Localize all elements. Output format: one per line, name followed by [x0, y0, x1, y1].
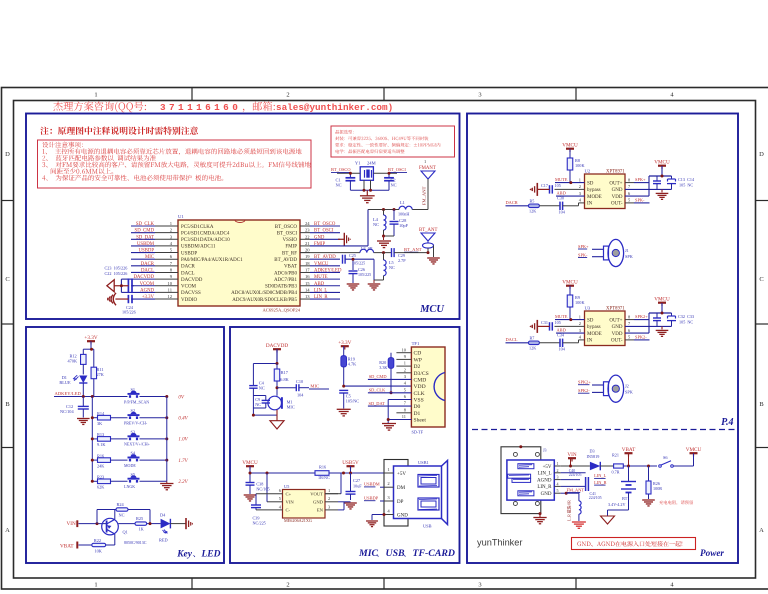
svg-text:20: 20 — [305, 248, 310, 253]
svg-text:11: 11 — [168, 287, 173, 292]
svg-text:GND: GND — [612, 325, 623, 330]
svg-text:4: 4 — [579, 335, 582, 340]
svg-text:2: 2 — [286, 92, 289, 99]
svg-text:SPK+: SPK+ — [635, 177, 646, 182]
svg-text:PA0/MIC/PA4/AUX1R/ADC1: PA0/MIC/PA4/AUX1R/ADC1 — [181, 258, 243, 263]
svg-text:CD: CD — [414, 351, 422, 357]
svg-text:FM_ANT: FM_ANT — [567, 487, 585, 492]
resistor R11 27K — [93, 349, 95, 367]
capacitor C9 NC — [262, 399, 270, 401]
svg-text:LIN_R: LIN_R — [314, 295, 328, 300]
svg-text:NC: NC — [389, 265, 395, 270]
ground below C26 — [347, 283, 360, 285]
J3 contact glyph GND — [518, 491, 534, 496]
svg-text:yunThinker: yunThinker — [477, 538, 522, 548]
svg-text:C34: C34 — [557, 332, 565, 337]
adkey node wire — [54, 396, 126, 398]
svg-text:D1: D1 — [414, 411, 421, 417]
wire crystal ground rail — [350, 189, 389, 191]
svg-text:C22 105/226: C22 105/226 — [105, 271, 128, 276]
Q1 emitter wire to R22 — [114, 534, 116, 545]
svg-text:ADKEY/LED: ADKEY/LED — [314, 268, 342, 273]
svg-text:9.1K: 9.1K — [97, 442, 106, 447]
svg-text:+3.3V: +3.3V — [142, 295, 155, 300]
wire mic top node — [253, 363, 277, 365]
svg-text:224/105: 224/105 — [589, 496, 602, 500]
svg-text:ADKEY/LED: ADKEY/LED — [55, 391, 82, 396]
svg-text:4: 4 — [670, 582, 674, 589]
svg-text:R7: R7 — [530, 335, 535, 340]
U1 pin 10 VCOM — [155, 285, 178, 287]
switch S2 PREV/V-/CH- — [129, 416, 131, 419]
U5 pin 6 C+ / pin 1 VOUT — [325, 493, 338, 495]
ground below C27 U5 — [344, 502, 357, 504]
net label MUTE U3 — [555, 319, 585, 321]
wire pin 15 — [310, 285, 340, 287]
svg-text:D3: D3 — [590, 449, 595, 454]
svg-text:A: A — [759, 527, 764, 534]
wire left pin 1 — [131, 225, 155, 227]
svg-text:GND: GND — [397, 513, 408, 518]
U1 pin 18 VBAT — [300, 265, 310, 267]
svg-text:BT_OSCI: BT_OSCI — [277, 231, 298, 236]
svg-text:C-: C- — [286, 508, 291, 513]
U1 pin 20 BT_RF — [300, 252, 310, 254]
svg-text:USBDP: USBDP — [181, 251, 197, 256]
U1 pin 9 DACVDD — [155, 278, 178, 280]
TF1 pin 8 D1 — [396, 412, 411, 414]
svg-text:8: 8 — [628, 314, 631, 319]
svg-text:SD0DATB/PB3: SD0DATB/PB3 — [265, 285, 297, 290]
svg-text:C1: C1 — [336, 177, 341, 182]
svg-text:2: 2 — [579, 321, 581, 326]
svg-text:NC/104: NC/104 — [60, 409, 74, 414]
svg-text:D2: D2 — [414, 364, 421, 370]
svg-text:VIN: VIN — [286, 500, 295, 505]
J3 contact glyph AGND double — [508, 474, 531, 478]
svg-text:470K: 470K — [68, 359, 78, 364]
svg-text:24: 24 — [305, 221, 310, 226]
U3 pin 8 OUT+ — [625, 319, 634, 321]
ground below switch rail — [160, 483, 173, 485]
svg-text:B: B — [759, 401, 764, 408]
resistor R24 NC feedback — [96, 510, 98, 524]
svg-text:3: 3 — [404, 374, 407, 379]
svg-text:2: 2 — [557, 468, 559, 473]
wire +5V row to VIN node — [561, 465, 590, 467]
svg-text:DACVDD: DACVDD — [133, 275, 154, 280]
resistor R7 12K input series — [506, 342, 529, 344]
svg-text:NC: NC — [259, 386, 265, 391]
svg-text:105/225: 105/225 — [358, 272, 371, 277]
svg-text:MUTE: MUTE — [555, 177, 568, 182]
svg-text:VCOM: VCOM — [140, 282, 155, 287]
svg-text:TF1: TF1 — [412, 341, 420, 346]
capacitor C23 series on VCOM — [127, 278, 129, 293]
svg-text:DP: DP — [397, 500, 404, 505]
svg-text:3: 3 — [478, 92, 481, 99]
capacitor C33 — [671, 313, 673, 316]
capacitor C27 10uF — [350, 473, 352, 492]
U1 pin 21 FMIP — [300, 245, 310, 247]
svg-text:J3: J3 — [543, 448, 547, 453]
svg-text:3: 3 — [387, 495, 390, 500]
svg-text:100R: 100R — [653, 486, 662, 491]
USB1 pin 4 GND — [384, 514, 394, 516]
svg-text:2: 2 — [387, 481, 390, 486]
U2 pin 5 OUT- — [625, 202, 634, 204]
svg-text:BT_ANT: BT_ANT — [419, 228, 437, 233]
svg-text:LIN_R: LIN_R — [594, 480, 607, 485]
ground below crystal Y1 — [360, 195, 375, 197]
svg-text:D0: D0 — [414, 404, 421, 410]
svg-text:224/105: 224/105 — [569, 473, 582, 477]
capacitor C39 NC/225 — [256, 493, 283, 495]
resistor R22 10K — [79, 544, 92, 546]
capacitor C25 105/225 on BT_AVDD — [342, 255, 344, 264]
svg-text:3: 3 — [557, 475, 559, 480]
capacitor C14 — [671, 176, 673, 179]
resistor R12 470K — [82, 349, 84, 354]
antenna matching wire — [427, 248, 429, 253]
svg-text:USBDP: USBDP — [139, 249, 155, 254]
LED D1 BLUE — [79, 376, 87, 384]
ground symbol on pin 22 GND rotated — [338, 238, 344, 240]
svg-text:BT_OSCO: BT_OSCO — [314, 222, 336, 227]
audio input connector J3 outer loop — [501, 447, 541, 514]
svg-text:4: 4 — [557, 481, 559, 486]
svg-text:10: 10 — [167, 281, 172, 286]
svg-text:5: 5 — [404, 387, 407, 392]
svg-text:USB1: USB1 — [418, 460, 429, 465]
svg-text:bypass: bypass — [587, 325, 601, 330]
svg-text:18: 18 — [305, 261, 310, 266]
svg-text:7: 7 — [404, 401, 407, 406]
svg-text:VDD: VDD — [612, 195, 623, 200]
wire BT_OSCO to crystal — [337, 172, 360, 174]
wire left pin 12 — [131, 298, 155, 300]
svg-text:C31: C31 — [541, 320, 548, 325]
inductor L5 NC shunt — [382, 251, 385, 254]
svg-text:3: 3 — [328, 504, 331, 509]
net name FM_ANT vertical — [422, 186, 427, 205]
svg-text:1: 1 — [557, 461, 559, 466]
wire left pin 3 — [131, 238, 155, 240]
Q1 collector riser to R24 line — [114, 510, 116, 520]
wire pin 22 — [310, 238, 340, 240]
svg-text:BT_RF: BT_RF — [282, 251, 297, 256]
U3 pin 5 OUT- — [625, 339, 634, 341]
resistor R8 100K — [567, 158, 573, 170]
svg-text:MCU: MCU — [419, 304, 445, 315]
svg-text:1: 1 — [404, 361, 406, 366]
wire +3.3V to TF VDD — [344, 385, 412, 387]
svg-text:ME6206A21XG: ME6206A21XG — [284, 518, 312, 523]
svg-text:SPK2+: SPK2+ — [635, 314, 648, 319]
svg-text:104: 104 — [297, 393, 304, 398]
ground below TF1 — [382, 423, 396, 425]
battery BT1 3.4V-4.2V — [628, 466, 630, 481]
svg-text:3.3K: 3.3K — [379, 365, 387, 370]
svg-text:SD_DAT: SD_DAT — [369, 401, 386, 406]
svg-text:Y1: Y1 — [355, 161, 361, 166]
USB1 pin 2 DM — [384, 486, 394, 488]
svg-text:8: 8 — [170, 267, 173, 272]
U1 pin 17 ADC6/PB0 — [300, 271, 310, 273]
svg-text:S5: S5 — [131, 472, 136, 477]
open triangle ground below mic — [270, 421, 284, 429]
svg-text:ADC7/PB1: ADC7/PB1 — [274, 278, 298, 283]
svg-text:0.7R: 0.7R — [612, 470, 620, 475]
Key LED section label — [176, 550, 220, 560]
svg-text:11: 11 — [402, 414, 406, 419]
svg-text:USB: USB — [423, 524, 432, 529]
section box right (amplifier + power) — [467, 114, 738, 564]
svg-text:0.4V: 0.4V — [178, 417, 188, 422]
capacitor C38 NC/105 — [249, 473, 251, 482]
svg-text:100K: 100K — [575, 163, 585, 168]
svg-text:5: 5 — [628, 198, 631, 203]
svg-text:BT_OSCO: BT_OSCO — [275, 225, 298, 230]
svg-text:M1: M1 — [287, 399, 293, 404]
svg-text:7: 7 — [170, 261, 173, 266]
net label LIN_R power side — [561, 485, 586, 487]
svg-text:MUTE: MUTE — [314, 275, 328, 280]
svg-text:0V: 0V — [178, 395, 185, 400]
svg-text:DACVDD: DACVDD — [181, 278, 203, 283]
wire pin 21 — [310, 245, 340, 247]
USB GND wire — [372, 514, 384, 516]
switch ladder right rail to ground — [166, 397, 168, 482]
svg-text:1: 1 — [387, 467, 390, 472]
ground below C5 — [337, 408, 351, 410]
svg-text:2: 2 — [328, 496, 330, 501]
U1 pin 5 USBDP — [155, 252, 178, 254]
svg-text:IN: IN — [587, 339, 593, 344]
svg-text:sales@yunthinker.com): sales@yunthinker.com) — [276, 102, 393, 113]
VDD wire to VMCU rail — [625, 332, 649, 334]
svg-text:GND: GND — [313, 500, 324, 505]
ground below L4 C28 — [377, 240, 391, 242]
svg-text:3: 3 — [579, 191, 582, 196]
net label ABD mode pin — [556, 195, 585, 197]
svg-text:P/P/FM_SCAN: P/P/FM_SCAN — [124, 399, 149, 404]
svg-text:NC: NC — [255, 402, 261, 407]
svg-text:3: 3 — [579, 328, 582, 333]
svg-text:22: 22 — [305, 234, 310, 239]
wire left pin 11 — [131, 291, 155, 293]
svg-text:MODE: MODE — [587, 332, 602, 337]
U5 GND EN wires — [338, 501, 351, 503]
section box MIC USB TF-CARD — [230, 327, 460, 563]
svg-text:8: 8 — [404, 407, 407, 412]
U1 pin 2 PC4/SD1CMDA/ADC4 — [155, 232, 178, 234]
net label MUTE U2 — [555, 182, 585, 184]
svg-text:1.7V: 1.7V — [178, 459, 188, 464]
U1 pin 15 SD0DATB/PB3 — [300, 285, 310, 287]
ground below R26 — [642, 499, 655, 501]
svg-text:C: C — [759, 276, 763, 283]
svg-text:USBDM: USBDM — [137, 242, 155, 247]
svg-text:19: 19 — [305, 254, 310, 259]
wire left pin 5 — [131, 252, 155, 254]
wire left pin 9 — [131, 278, 155, 280]
svg-text:D: D — [759, 151, 764, 158]
svg-text:VBAT: VBAT — [60, 544, 74, 550]
svg-text:MIC: MIC — [287, 405, 295, 410]
svg-text:12: 12 — [167, 294, 172, 299]
wire left pin 4 — [131, 245, 155, 247]
svg-text:105 NC: 105 NC — [679, 183, 693, 188]
svg-text:J1: J1 — [625, 248, 629, 253]
svg-text:L1: L1 — [400, 200, 405, 205]
wire GND row to L2 — [561, 492, 567, 494]
svg-text:Sheet: Sheet — [414, 418, 427, 424]
svg-text:LIN_L: LIN_L — [594, 473, 607, 478]
wire FMIP riser to L1 to FM_ANT — [368, 209, 399, 211]
wire left pin 2 — [131, 232, 155, 234]
svg-text:R14: R14 — [97, 411, 105, 416]
svg-text:C+: C+ — [286, 491, 292, 496]
svg-text:DACR: DACR — [141, 262, 155, 267]
U1 pin 7 DACR — [155, 265, 178, 267]
GND pin rail and ground symbol — [625, 325, 672, 327]
svg-text:R23: R23 — [97, 475, 104, 480]
resistor R20 3.3K pull-up on CD — [390, 353, 392, 358]
svg-text:D: D — [5, 151, 10, 158]
svg-text:105/225: 105/225 — [352, 261, 365, 266]
svg-text:GND: GND — [612, 188, 623, 193]
svg-text:1R/NC: 1R/NC — [318, 475, 330, 480]
svg-text:27K: 27K — [97, 372, 105, 377]
svg-text:15: 15 — [305, 281, 310, 286]
svg-text:GND: GND — [541, 492, 552, 497]
capacitor C13 — [656, 176, 658, 181]
svg-text:C23 105/226: C23 105/226 — [105, 265, 128, 270]
usb 5V rail wire — [250, 472, 315, 474]
section box MCU — [26, 114, 460, 320]
svg-text:NEXT/V+/CH+: NEXT/V+/CH+ — [124, 442, 151, 447]
svg-text:5: 5 — [557, 488, 559, 493]
wire AGND row — [561, 479, 580, 481]
U2 pin 8 OUT+ — [625, 182, 634, 184]
wire VIN to Q1 base — [79, 523, 107, 525]
svg-text:OUT+: OUT+ — [609, 318, 622, 323]
svg-text:S2: S2 — [131, 408, 136, 413]
svg-text:2.7P: 2.7P — [398, 258, 406, 263]
svg-text:P.4: P.4 — [721, 417, 733, 428]
net label LIN_L power side — [561, 472, 586, 474]
svg-text:C: C — [5, 276, 9, 283]
svg-text:104: 104 — [559, 209, 566, 214]
svg-text:4: 4 — [579, 198, 582, 203]
USB contact pad lower — [418, 498, 439, 510]
svg-text:LIN_L: LIN_L — [314, 288, 327, 293]
TF1 pin 1 D2 — [396, 365, 411, 367]
svg-text:OUT-: OUT- — [611, 202, 623, 207]
svg-text:VSS: VSS — [414, 398, 424, 404]
svg-text:7: 7 — [628, 321, 631, 326]
ground flag left of bypass cap — [537, 325, 549, 327]
TF1 pin 10 CD — [396, 352, 411, 354]
svg-text:U3: U3 — [585, 306, 591, 311]
svg-text:BT_AVDD: BT_AVDD — [314, 255, 336, 260]
ground flag left of bypass cap — [537, 188, 549, 190]
svg-text:10: 10 — [402, 347, 407, 352]
MIC USB TF-CARD section label — [358, 548, 455, 559]
svg-text:12K: 12K — [529, 208, 536, 213]
U1 pin 8 DACL — [155, 271, 178, 273]
svg-text:17: 17 — [305, 267, 310, 272]
svg-text:R16: R16 — [97, 453, 105, 458]
wire pin 18 — [310, 265, 340, 267]
svg-text:VIN: VIN — [67, 521, 76, 527]
U1 pin 11 DACVSS — [155, 291, 178, 293]
LED D4 RED — [161, 519, 171, 529]
svg-text:IN: IN — [587, 202, 593, 207]
svg-text:2: 2 — [579, 184, 581, 189]
ground below BT antenna — [427, 257, 440, 259]
svg-text:SD_CLK: SD_CLK — [136, 222, 155, 227]
switch S6 — [647, 465, 650, 468]
svg-text:USBDP: USBDP — [364, 496, 379, 501]
capacitor C34 104 input series — [559, 339, 561, 347]
svg-text:Q1: Q1 — [123, 530, 128, 535]
svg-text:VDD: VDD — [414, 384, 426, 390]
svg-text:5: 5 — [628, 335, 631, 340]
svg-text:3.4V-4.2V: 3.4V-4.2V — [608, 502, 626, 507]
svg-text:SD_DAT: SD_DAT — [136, 235, 154, 240]
svg-text:S6: S6 — [663, 455, 668, 460]
svg-text:USBDM: USBDM — [364, 482, 380, 487]
wire pin 24 — [310, 225, 340, 227]
svg-text:OUT-: OUT- — [611, 339, 623, 344]
U1 pin 14 ADC8/AUX0L/SD0CMDB/PB4 — [300, 291, 310, 293]
svg-text:bypass: bypass — [587, 188, 601, 193]
svg-text:1.0V: 1.0V — [178, 438, 188, 443]
svg-text:12K: 12K — [529, 345, 536, 350]
capacitor C26 105/225 shunt — [352, 259, 354, 270]
svg-text:FM_ANT: FM_ANT — [422, 186, 427, 205]
svg-text:VSSIO: VSSIO — [283, 238, 298, 243]
svg-text:104: 104 — [559, 346, 566, 351]
svg-text:ADC9/AUX0R/SD0CLKB/PB5: ADC9/AUX0R/SD0CLKB/PB5 — [232, 298, 297, 303]
svg-text:C13 C14: C13 C14 — [678, 177, 695, 182]
audio input connector J3 inner body — [507, 460, 554, 500]
resistor R5 12K input series — [506, 205, 529, 207]
svg-text:C30: C30 — [557, 195, 564, 200]
svg-text:NC: NC — [336, 183, 342, 188]
capacitor C28 10pF shunt — [393, 208, 396, 211]
U5 pin 5 VIN / pin 2 GND — [325, 501, 338, 503]
wire pin 13 — [310, 298, 340, 300]
U1 pin 13 ADC9/AUX0R/SD0CLKB/PB5 — [300, 298, 310, 300]
svg-text:62K: 62K — [97, 485, 105, 490]
svg-text:SD_CMD: SD_CMD — [135, 229, 155, 234]
svg-text:16: 16 — [305, 274, 310, 279]
svg-text:C10: C10 — [296, 379, 303, 384]
svg-text:GND: GND — [314, 235, 325, 240]
svg-text:2.2V: 2.2V — [178, 480, 188, 485]
wire left pin 6 — [131, 258, 155, 260]
inductor L3 0R series — [360, 249, 374, 252]
svg-text:6: 6 — [628, 191, 631, 196]
svg-text:4: 4 — [279, 504, 282, 509]
svg-text:2: 2 — [170, 228, 173, 233]
switch S5 LNGK — [129, 480, 131, 483]
svg-text:6: 6 — [279, 488, 282, 493]
U1 pin 6 PA0/MIC/PA4/AUX1R/ADC1 — [155, 258, 178, 260]
